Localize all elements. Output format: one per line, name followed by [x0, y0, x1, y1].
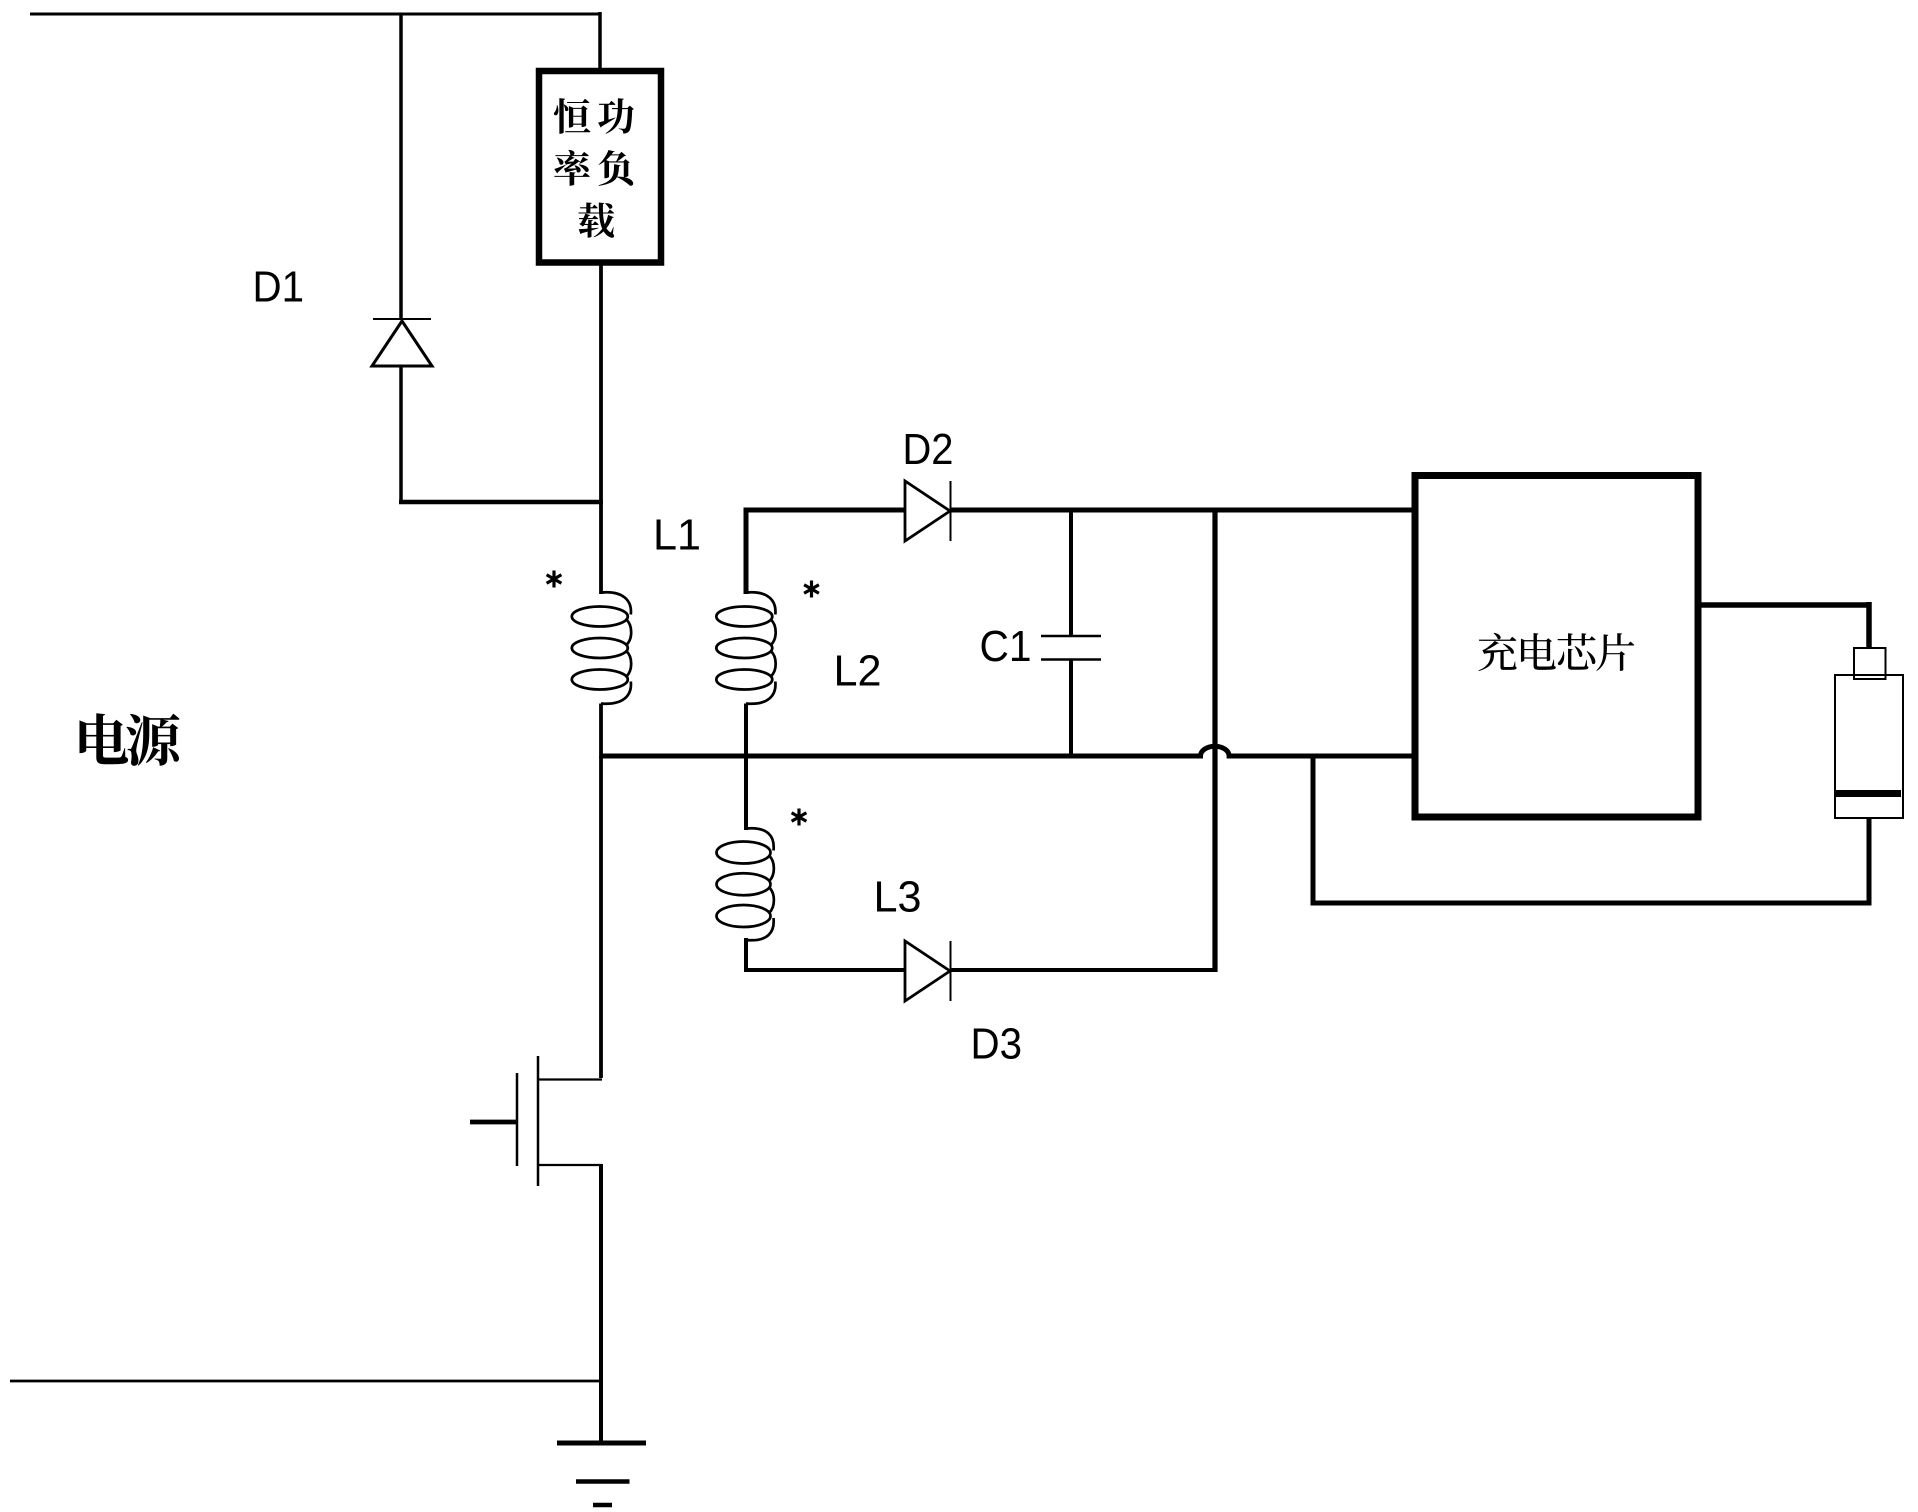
svg-text:L3: L3	[874, 874, 922, 922]
wire: L2 to D2 anode	[744, 508, 906, 513]
wire: L3 bottom lead	[744, 938, 748, 972]
wire: L3 top lead	[744, 754, 748, 830]
capacitor C1 bottom plate	[1041, 658, 1101, 661]
wire: L2 bottom lead	[744, 704, 748, 759]
svg-text:L1: L1	[653, 512, 701, 560]
svg-text:C1: C1	[980, 623, 1032, 671]
diode D3 cathode bar	[950, 941, 952, 1001]
chip text 充电芯片	[1478, 633, 1516, 671]
wire: L2 top lead	[744, 508, 749, 595]
label 电源 (power source)	[79, 713, 128, 764]
diode D2	[905, 481, 950, 541]
MOSFET Q1 gate lead	[470, 1120, 517, 1125]
inductor L3 winding	[717, 842, 771, 864]
wire: load box to L1	[599, 262, 603, 594]
inductor L2 winding	[716, 607, 772, 627]
L1 dot marker *	[552, 571, 555, 588]
battery negative plate bar	[1836, 790, 1901, 797]
ground bar 3	[593, 1503, 612, 1508]
diode D1 cathode bar	[373, 318, 431, 320]
wire: D3 cathode to vertical	[950, 968, 1217, 972]
load box (constant power load)	[539, 71, 661, 263]
wire: D1 branch to main node	[399, 500, 603, 505]
battery top terminal cap	[1854, 648, 1886, 679]
wire: top supply rail	[30, 13, 600, 16]
MOSFET Q1 drain connector	[538, 1078, 602, 1080]
wire: source down to ground rail	[599, 1164, 603, 1444]
wire: L3 to D3 anode	[744, 968, 906, 972]
MOSFET Q1 source connector	[538, 1164, 602, 1166]
svg-text:D1: D1	[253, 264, 305, 312]
MOSFET Q1 gate bar	[516, 1073, 519, 1166]
wire: bottom return rail	[10, 1380, 601, 1383]
wire: battery return bottom	[1311, 901, 1872, 906]
diode D1	[372, 321, 432, 366]
L2 dot marker *	[810, 581, 813, 598]
wire: node line with hop over vertical	[601, 746, 1415, 756]
wire: battery negative down	[1867, 818, 1872, 903]
charging chip box	[1415, 476, 1698, 818]
svg-text:L2: L2	[834, 648, 882, 696]
load box text 恒功率负载	[554, 98, 591, 134]
MOSFET Q1 channel bar	[537, 1056, 540, 1186]
ground bar 1	[557, 1441, 646, 1446]
wire: D2 output vertical down to D3 cathode	[1212, 508, 1217, 973]
wire: C1 bottom lead	[1069, 660, 1073, 759]
diode D2 cathode bar	[950, 481, 952, 541]
battery cell body	[1835, 675, 1903, 818]
wire: C1 top lead	[1069, 510, 1073, 636]
ground bar 2	[576, 1479, 630, 1484]
capacitor C1 top plate	[1041, 635, 1101, 638]
wire: top rail to load box	[598, 12, 602, 68]
wire: main vertical node to MOSFET drain	[599, 756, 603, 1078]
wire: L1 to node	[599, 704, 603, 759]
svg-text:D2: D2	[903, 426, 954, 474]
svg-text:D3: D3	[971, 1021, 1023, 1069]
wire: D1 branch from top rail	[399, 14, 403, 318]
wire: D2 cathode to chip	[950, 508, 1415, 513]
L3 dot marker *	[797, 809, 800, 826]
wire: return vertical to node line	[1311, 756, 1316, 906]
wire: chip to battery positive	[1698, 602, 1869, 608]
inductor L1 winding	[572, 607, 628, 627]
diode D3	[905, 941, 950, 1001]
wire: D1 anode down	[399, 366, 403, 504]
